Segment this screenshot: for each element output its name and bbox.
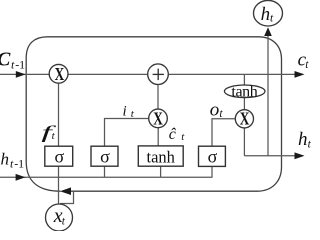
svg-text:o: o bbox=[210, 100, 220, 121]
add node plus bbox=[148, 64, 169, 85]
wire h output line bbox=[244, 155, 303, 157]
label c_t output bbox=[298, 50, 310, 71]
svg-text:tanh: tanh bbox=[146, 147, 175, 166]
svg-text:h: h bbox=[261, 4, 271, 25]
wire branch up to h_t top circle bbox=[267, 35, 269, 156]
wire sigma box i up and right to X2 bbox=[105, 119, 149, 147]
label i_t bbox=[123, 103, 135, 120]
wire plus to c_t output bbox=[168, 73, 303, 75]
svg-text:h: h bbox=[298, 129, 308, 150]
svg-text:C: C bbox=[0, 48, 11, 70]
wire C(t-1) input line bbox=[0, 73, 49, 75]
multiply node X3 bbox=[235, 109, 253, 129]
label o_t bbox=[210, 100, 224, 121]
svg-text:h: h bbox=[1, 150, 10, 169]
sigma gate box f bbox=[45, 146, 73, 166]
svg-text:σ: σ bbox=[54, 146, 64, 166]
wire h(t-1) input line bbox=[0, 176, 213, 178]
tanh gate box bbox=[138, 146, 183, 166]
arrowhead into h_t top circle bbox=[264, 27, 272, 36]
svg-text:X: X bbox=[240, 109, 250, 129]
label h_t output right bbox=[298, 129, 312, 151]
svg-text:X: X bbox=[55, 64, 65, 84]
svg-text:σ: σ bbox=[208, 146, 218, 166]
wire step connector from bottom edge down to x_t circle bbox=[60, 191, 74, 203]
cell body rounded rectangle bbox=[26, 37, 281, 191]
tanh ellipse bbox=[224, 84, 265, 101]
label h(t-1) bbox=[1, 150, 25, 171]
multiply node X1 bbox=[49, 64, 68, 84]
node x_t bottom circle bbox=[46, 204, 73, 231]
arrowhead C(t-1) into cell bbox=[16, 71, 26, 78]
svg-text:ĉ: ĉ bbox=[169, 126, 177, 143]
arrowhead h(t-1) into cell bbox=[16, 174, 26, 181]
wire tanh ellipse to X3 bbox=[243, 97, 245, 110]
wire X1 down to sigma box f bbox=[58, 83, 60, 146]
recurrent arrowhead on bottom edge pointing left into x_t line bbox=[60, 187, 71, 195]
svg-text:σ: σ bbox=[100, 146, 110, 166]
wire stub sigma i bottom bbox=[104, 166, 106, 177]
svg-text:X: X bbox=[153, 108, 163, 128]
wire stub sigma o bottom bbox=[211, 166, 213, 177]
sigma gate box o bbox=[199, 146, 226, 166]
wire branch from C line down to tanh ellipse bbox=[243, 74, 245, 85]
wire sigma box o up and right to X3 bbox=[212, 119, 236, 146]
svg-text:i: i bbox=[123, 103, 127, 119]
wire X2 down to tanh box bbox=[157, 128, 159, 146]
svg-text:-1: -1 bbox=[14, 157, 24, 171]
wire stub sigma f bottom down through input line to x_t circle bbox=[58, 166, 60, 204]
wire stub tanh box bottom bbox=[160, 166, 162, 177]
label f_t bbox=[41, 122, 58, 142]
label C(t-1) bbox=[0, 48, 25, 71]
label c-hat_t bbox=[169, 126, 186, 143]
wire plus down to X2 bbox=[157, 85, 159, 110]
svg-text:tanh: tanh bbox=[231, 84, 257, 101]
multiply node X2 bbox=[149, 108, 168, 128]
wire X3 down to h output line bbox=[243, 128, 245, 156]
node h_t top circle bbox=[254, 0, 283, 26]
arrowhead h_t output right bbox=[295, 152, 305, 159]
arrowhead c_t output bbox=[295, 71, 305, 78]
wire X1 to plus bbox=[68, 73, 148, 75]
svg-text:-1: -1 bbox=[15, 57, 25, 71]
sigma gate box i bbox=[91, 146, 118, 166]
